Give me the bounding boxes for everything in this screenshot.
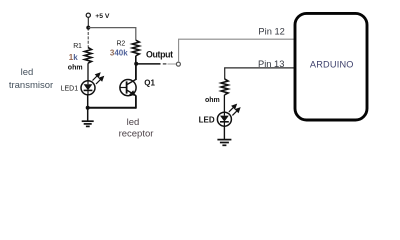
LED D2 (receiver indicator)	[217, 112, 231, 126]
Arduino U1 box	[295, 13, 367, 120]
svg-text:led: led	[127, 117, 140, 128]
resistor R3 (ohm)	[221, 79, 228, 95]
wire emitter bottom rail	[88, 107, 136, 109]
wire output to Pin 12	[179, 39, 294, 62]
output terminal node	[176, 62, 180, 66]
wire +5V rail to R2	[88, 28, 136, 41]
svg-text:LED1: LED1	[61, 86, 79, 93]
node junction output	[134, 62, 138, 66]
svg-text:+5 V: +5 V	[95, 13, 110, 20]
wire LED1 to ground junction	[87, 95, 89, 121]
wire Pin 13 to resistor	[225, 68, 294, 79]
wire collector	[135, 64, 137, 80]
svg-text:ohm: ohm	[205, 97, 220, 104]
ground (right)	[217, 140, 231, 146]
wire R1 to LED1	[87, 63, 89, 84]
svg-text:340k: 340k	[110, 49, 128, 58]
resistor R2	[132, 40, 139, 56]
svg-text:Pin 12: Pin 12	[258, 26, 284, 36]
svg-text:transmisor: transmisor	[9, 80, 53, 91]
wire R3 to LED	[223, 95, 225, 116]
svg-text:R1: R1	[73, 43, 82, 50]
svg-text:Q1: Q1	[144, 78, 155, 87]
wire R2 to output node	[135, 56, 137, 64]
LED emission arrows	[229, 105, 240, 116]
node junction at LED1 bottom	[86, 106, 90, 110]
wire emitter down	[135, 95, 137, 108]
transistor Q1	[120, 79, 136, 96]
svg-text:led: led	[21, 67, 34, 78]
LED D1 (LED1)	[81, 81, 95, 95]
resistor R1	[85, 48, 92, 64]
svg-text:1k: 1k	[69, 53, 78, 62]
svg-text:Output: Output	[146, 50, 173, 60]
svg-text:receptor: receptor	[119, 129, 154, 140]
wire junction to R1	[87, 28, 89, 48]
LED1 emission arrows	[93, 73, 104, 84]
ground (left)	[82, 121, 94, 126]
wire LED to ground	[223, 126, 225, 139]
node junction at +5V rail	[86, 26, 90, 30]
+5V terminal	[86, 13, 90, 17]
wire output dashes	[136, 63, 160, 65]
svg-text:R2: R2	[117, 40, 126, 47]
wire from +5V terminal down	[87, 17, 89, 27]
svg-text:LED: LED	[199, 116, 215, 125]
svg-text:ohm: ohm	[68, 64, 83, 71]
svg-text:ARDUINO: ARDUINO	[310, 60, 354, 70]
